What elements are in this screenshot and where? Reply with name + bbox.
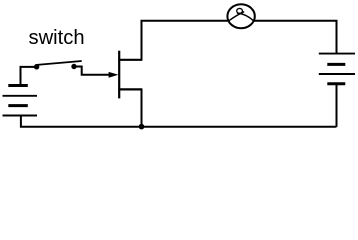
lamp filament left line <box>229 12 244 21</box>
lamp filament loop <box>237 8 243 13</box>
switch pole contact dot <box>34 64 39 69</box>
JFET Q1 gate arrowhead <box>109 72 119 78</box>
lamp envelope circle <box>227 4 254 28</box>
JFET Q1 source lead <box>118 88 141 90</box>
wire: lamp to battery B2 top <box>253 21 336 54</box>
wire: bottom rail <box>21 116 337 127</box>
JFET Q1 drain lead <box>118 59 141 61</box>
wire: drain up and over to lamp <box>142 21 229 61</box>
wire: source down to bottom rail <box>141 88 143 126</box>
wire: battery B1 top to switch pole <box>21 67 35 86</box>
switch throw contact dot <box>71 64 76 69</box>
lamp filament right line <box>237 13 254 21</box>
svg-text:switch: switch <box>29 27 85 49</box>
wire: battery B2 bottom to bottom rail <box>336 84 338 127</box>
wire: switch throw to gate <box>74 67 110 75</box>
battery B2 (right, drain supply) <box>319 54 355 84</box>
JFET Q1 channel bar <box>118 51 120 99</box>
battery B1 (left, gate bias) <box>3 86 38 116</box>
junction dot (source to bottom rail) <box>139 124 145 130</box>
switch lever (blade) <box>35 61 81 65</box>
